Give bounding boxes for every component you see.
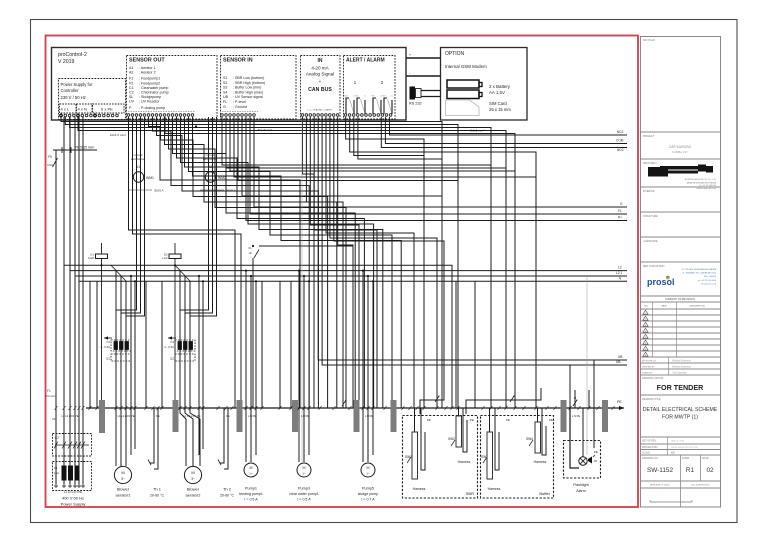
svg-text:: Buffer High (max): : Buffer High (max) bbox=[233, 90, 263, 94]
pump motor Pump5 bbox=[361, 463, 375, 477]
IN terminals bbox=[301, 114, 304, 117]
analog in wire 1 bbox=[303, 117, 315, 408]
svg-text:I Md Suardika: I Md Suardika bbox=[672, 372, 687, 375]
flashlight feed L bbox=[569, 365, 571, 408]
bundle count marks bbox=[342, 400, 346, 406]
svg-text:K2: K2 bbox=[55, 436, 59, 440]
svg-text:Harness: Harness bbox=[413, 487, 426, 491]
svg-text:DETAIL ELECTRICAL SCHEME: DETAIL ELECTRICAL SCHEME bbox=[643, 407, 718, 413]
bus tap connectors bbox=[111, 265, 116, 270]
svg-text:1: 1 bbox=[645, 313, 646, 315]
SIM card outline bbox=[446, 100, 480, 116]
junction dots bbox=[195, 125, 197, 127]
svg-text:5x4 mm²: 5x4 mm² bbox=[45, 394, 56, 398]
svg-text:5x1.5 mm²: 5x1.5 mm² bbox=[258, 128, 272, 132]
svg-text:: Aerator 1: : Aerator 1 bbox=[139, 66, 156, 70]
svg-text:+: + bbox=[409, 53, 411, 57]
analog in wire 4 bbox=[314, 117, 377, 408]
drawing status FOR TENDER bbox=[641, 394, 721, 396]
svg-text:M: M bbox=[367, 466, 370, 470]
wire L feed a bbox=[61, 117, 442, 408]
analog in wire 8 bbox=[338, 117, 353, 408]
svg-text:SIM Card: SIM Card bbox=[489, 101, 507, 106]
svg-text:: SBR Low (bottom): : SBR Low (bottom) bbox=[233, 76, 264, 80]
svg-text:WM2: WM2 bbox=[218, 176, 226, 180]
bus line N bbox=[79, 280, 627, 282]
svg-text:S2: S2 bbox=[223, 81, 227, 85]
svg-text:proControl-2: proControl-2 bbox=[58, 52, 87, 58]
motor breaker F4 Q2 bbox=[175, 340, 195, 351]
svg-text:4 x L: 4 x L bbox=[61, 107, 70, 112]
sensor in wire 6 bbox=[242, 117, 442, 196]
disconnect F9 bbox=[53, 158, 58, 167]
sensor out wire 9 bbox=[181, 117, 374, 408]
flashlight alarm enclosure bbox=[564, 441, 601, 479]
breaker feed risers bbox=[115, 270, 117, 311]
svg-text:FOR TENDER: FOR TENDER bbox=[657, 383, 705, 392]
alarm lamp bbox=[570, 408, 579, 468]
svg-text:R1: R1 bbox=[686, 467, 695, 474]
contactor K2 box bbox=[53, 434, 92, 457]
analog in wire 5 bbox=[326, 117, 414, 408]
PE riser bbox=[55, 150, 57, 484]
svg-text:Internal GSM Modem: Internal GSM Modem bbox=[445, 64, 487, 69]
bus line L2 bbox=[70, 270, 627, 272]
svg-text:L N PE: L N PE bbox=[248, 414, 256, 418]
svg-text:Power Supply for: Power Supply for bbox=[61, 82, 93, 87]
svg-text:aerator2: aerator2 bbox=[186, 493, 202, 498]
svg-text:A2: A2 bbox=[129, 71, 133, 75]
svg-text:: SBR High (bottom): : SBR High (bottom) bbox=[233, 81, 265, 85]
svg-text:DRAWING TITLE: DRAWING TITLE bbox=[642, 398, 661, 401]
svg-text:2 x Battery: 2 x Battery bbox=[489, 84, 511, 89]
svg-text:Analog Signal: Analog Signal bbox=[306, 72, 334, 77]
svg-text:: Sludgepump: : Sludgepump bbox=[139, 95, 161, 99]
svg-text:PROJECTION: PROJECTION bbox=[642, 446, 658, 449]
wire P+ bbox=[246, 117, 627, 221]
sensor out wire 12 bbox=[193, 117, 402, 408]
svg-text:NO: NO bbox=[383, 96, 386, 98]
sensor in wire 5 bbox=[238, 117, 458, 181]
title block frame bbox=[641, 37, 721, 508]
analog in wire 3 bbox=[310, 117, 359, 408]
pump3 feed bbox=[298, 271, 300, 462]
measurement line 1 bbox=[301, 119, 303, 462]
SENSOR OUT terminals bbox=[127, 114, 130, 117]
svg-text:L N PE: L N PE bbox=[572, 414, 580, 418]
rail terminal ticks bbox=[55, 406, 58, 410]
svg-text:WM1: WM1 bbox=[146, 176, 154, 180]
sensor out wire 2 bbox=[153, 117, 310, 408]
svg-text:: Feedpump1: : Feedpump1 bbox=[139, 77, 160, 81]
svg-text:STRUCTURE: STRUCTURE bbox=[643, 215, 658, 218]
thermal switch Th 2 bbox=[220, 408, 224, 463]
svg-text:V 2019: V 2019 bbox=[58, 59, 75, 65]
svg-text:PE: PE bbox=[594, 450, 598, 454]
svg-text:1~: 1~ bbox=[366, 472, 370, 476]
flashlight feed N bbox=[574, 390, 576, 408]
wire UB- bbox=[322, 117, 627, 365]
svg-text:Controller: Controller bbox=[61, 88, 80, 93]
svg-text:5: 5 bbox=[645, 337, 646, 339]
svg-text:SW-1152: SW-1152 bbox=[647, 467, 673, 474]
svg-text:SET-UP REV.: SET-UP REV. bbox=[642, 440, 657, 443]
svg-text:RS 232: RS 232 bbox=[409, 102, 422, 106]
approval rows bbox=[668, 357, 670, 375]
relay D1 LGM bbox=[96, 254, 108, 259]
svg-text:LGM: LGM bbox=[88, 256, 95, 260]
svg-text:: UV Reactor: : UV Reactor bbox=[139, 100, 160, 104]
svg-text:: UV Sensor signal: : UV Sensor signal bbox=[233, 95, 263, 99]
svg-text:L2: L2 bbox=[618, 266, 622, 270]
wire NO2 bbox=[381, 117, 627, 148]
alarm wire 2 bbox=[350, 117, 536, 408]
analog in wire 6 bbox=[330, 117, 437, 408]
svg-text:DESCRIPTION: DESCRIPTION bbox=[690, 306, 705, 308]
buffer aux feed bbox=[588, 390, 590, 408]
svg-text:IN: IN bbox=[318, 58, 323, 64]
svg-text:Widhian Bramanti: Widhian Bramanti bbox=[672, 360, 691, 363]
main fuse box F1 bbox=[53, 462, 92, 491]
svg-text:M: M bbox=[121, 470, 124, 475]
svg-text:INTERIOR: INTERIOR bbox=[643, 190, 655, 193]
svg-text:: Clearwater pump: : Clearwater pump bbox=[139, 86, 168, 90]
alarm wire 4 bbox=[358, 117, 442, 159]
key plan section bbox=[641, 131, 721, 133]
svg-text:300/5 A: 300/5 A bbox=[154, 189, 164, 193]
sensor out wire 1 bbox=[149, 117, 301, 408]
sensor in wire 4 bbox=[234, 117, 536, 177]
PE feed wire bbox=[53, 149, 97, 151]
svg-text:JL. RAYA ABC NO.1 JAKARTA 1234: JL. RAYA ABC NO.1 JAKARTA 12345 bbox=[683, 272, 717, 275]
svg-text:info@united-arch.com: info@united-arch.com bbox=[696, 187, 716, 190]
svg-text:PT. PROSOL REKAYASA INDONESIA: PT. PROSOL REKAYASA INDONESIA bbox=[682, 268, 717, 271]
motor2 PE bbox=[202, 281, 204, 449]
svg-text:6 x PE: 6 x PE bbox=[101, 107, 113, 112]
svg-text:: Chlorinator pump: : Chlorinator pump bbox=[139, 91, 169, 95]
svg-text:: Ground: : Ground bbox=[233, 105, 247, 109]
pump motor Pump3 bbox=[297, 463, 311, 477]
svg-text:L N PE: L N PE bbox=[365, 414, 373, 418]
svg-text:PAGE: PAGE bbox=[702, 457, 709, 460]
svg-text:4 - 6.3A: 4 - 6.3A bbox=[100, 345, 110, 349]
svg-text:SW1: SW1 bbox=[405, 455, 412, 459]
svg-text:JAN 05, 2023: JAN 05, 2023 bbox=[671, 440, 685, 443]
svg-text:AFFILIATE OF LINKS: AFFILIATE OF LINKS bbox=[650, 484, 670, 487]
svg-text:DATE: DATE bbox=[661, 305, 667, 308]
flashlight feed PE bbox=[593, 360, 595, 408]
affiliate row bbox=[641, 487, 721, 489]
svg-text:Blower: Blower bbox=[187, 487, 200, 492]
projection row bbox=[641, 449, 721, 451]
terminal group 4xL bbox=[60, 104, 77, 113]
svg-text:F1: F1 bbox=[47, 389, 51, 393]
svg-text:M: M bbox=[250, 466, 253, 470]
svg-text:ph +62 21 000 0000: ph +62 21 000 0000 bbox=[698, 280, 717, 282]
alarm wire 3 bbox=[354, 117, 424, 156]
svg-text:7: 7 bbox=[645, 349, 646, 351]
svg-text:NO: NO bbox=[356, 96, 359, 98]
sensor out wire 10 bbox=[185, 117, 383, 408]
svg-text:20-60 °C: 20-60 °C bbox=[150, 494, 165, 498]
svg-text:SENSOR OUT: SENSOR OUT bbox=[129, 58, 165, 64]
svg-text:02: 02 bbox=[706, 467, 714, 474]
bus line L1 bbox=[64, 265, 452, 408]
svg-text:3: 3 bbox=[645, 325, 646, 327]
svg-text:4: 4 bbox=[645, 331, 646, 333]
svg-text:PE: PE bbox=[506, 418, 510, 422]
svg-text:FL: FL bbox=[223, 100, 227, 104]
svg-text:PE: PE bbox=[549, 418, 553, 422]
svg-text:+: + bbox=[319, 79, 322, 84]
svg-text:Q2: Q2 bbox=[170, 357, 174, 361]
sensor out wire 8 bbox=[177, 117, 365, 408]
analog in wire 2 bbox=[306, 117, 343, 408]
main power feed bundle bbox=[63, 117, 65, 484]
SENSOR IN terminals bbox=[221, 114, 224, 117]
ALERT ALARM module bbox=[344, 56, 396, 120]
alarm horn bbox=[588, 457, 592, 464]
SBR tank enclosure bbox=[403, 416, 478, 499]
svg-text:LG2: LG2 bbox=[162, 256, 168, 260]
controller enclosure proControl-2 bbox=[52, 48, 407, 121]
wire COM bbox=[385, 117, 627, 144]
svg-text:DRAWN BY: DRAWN BY bbox=[642, 372, 653, 375]
PE rail bbox=[86, 407, 624, 409]
measurement line 2 bbox=[586, 277, 588, 455]
svg-text:10x1.5 mm²: 10x1.5 mm² bbox=[110, 133, 126, 137]
motor1 PE bbox=[134, 281, 136, 449]
svg-text:Harness: Harness bbox=[488, 487, 501, 491]
power supply module bbox=[59, 79, 126, 120]
svg-text:: P-level: : P-level bbox=[233, 100, 246, 104]
svg-text:X1: X1 bbox=[52, 417, 56, 421]
motor M1 blower1 bbox=[114, 466, 131, 483]
relay D2 LG2 bbox=[169, 254, 181, 259]
svg-text:Buffer: Buffer bbox=[539, 491, 550, 496]
svg-text:: Feedpump2: : Feedpump2 bbox=[139, 81, 160, 85]
svg-text:NO2: NO2 bbox=[617, 148, 624, 152]
thermal switch Th 1 bbox=[150, 408, 154, 463]
svg-text:400 V 50 Hz: 400 V 50 Hz bbox=[62, 496, 84, 501]
alarm relay contacts bbox=[346, 98, 349, 114]
svg-text:SW4: SW4 bbox=[526, 437, 533, 441]
svg-text:L N PE: L N PE bbox=[301, 414, 309, 418]
svg-text:CAP KAROSO: CAP KAROSO bbox=[669, 145, 692, 149]
svg-text:I = 0.5 A: I = 0.5 A bbox=[297, 498, 311, 502]
cable ducts bbox=[99, 400, 105, 433]
architect section bbox=[641, 186, 721, 188]
svg-text:N: N bbox=[574, 396, 576, 400]
wire G bbox=[254, 117, 627, 207]
svg-text:L1 L2 L3 N PE: L1 L2 L3 N PE bbox=[118, 414, 135, 418]
alarm PE wire bbox=[593, 408, 595, 448]
svg-text:230 V / 50 Hz: 230 V / 50 Hz bbox=[61, 95, 86, 100]
MEP consultant section bbox=[641, 295, 721, 297]
svg-text:FL: FL bbox=[618, 209, 622, 213]
svg-text:AA 1.5V: AA 1.5V bbox=[489, 90, 505, 95]
svg-text:P+: P+ bbox=[618, 216, 622, 220]
svg-text:aerator1: aerator1 bbox=[116, 493, 132, 498]
svg-text:A1: A1 bbox=[129, 66, 133, 70]
svg-text:SUMMARY OF REVISIONS: SUMMARY OF REVISIONS bbox=[665, 298, 695, 301]
bus drops bbox=[89, 281, 91, 408]
svg-text:1~: 1~ bbox=[249, 472, 253, 476]
svg-text:ALERT / ALARM: ALERT / ALARM bbox=[346, 58, 385, 64]
pump motor Pump1 bbox=[244, 463, 258, 477]
svg-text:I = 0.7 A: I = 0.7 A bbox=[361, 498, 375, 502]
svg-text:Pump1: Pump1 bbox=[245, 487, 257, 491]
svg-text:1~: 1~ bbox=[302, 472, 306, 476]
svg-text:Th 2: Th 2 bbox=[223, 487, 232, 492]
section 4 bbox=[641, 211, 721, 213]
svg-text:PE: PE bbox=[427, 418, 431, 422]
drawing number cell bbox=[641, 480, 721, 482]
svg-text:VERIFIED BY: VERIFIED BY bbox=[642, 367, 655, 369]
sensor in wire 3 bbox=[230, 117, 515, 171]
svg-text:Pump5: Pump5 bbox=[362, 487, 374, 491]
svg-text:FORM: FORM bbox=[682, 457, 689, 460]
section 5 bbox=[641, 236, 721, 238]
sensor in wire 1 bbox=[222, 117, 491, 165]
contactor Q2 bbox=[175, 354, 195, 361]
revision table bbox=[641, 308, 721, 310]
sensor out deep wire 2 bbox=[133, 117, 242, 408]
setup rev row bbox=[641, 443, 721, 445]
svg-text:Th 1: Th 1 bbox=[153, 487, 162, 492]
svg-text:SCALE: SCALE bbox=[642, 452, 650, 455]
terminal group 4xN bbox=[77, 104, 93, 113]
sensor out deep wire 1 bbox=[129, 117, 236, 408]
sensor out wire 11 bbox=[189, 117, 393, 408]
svg-text:: Aerator 2: : Aerator 2 bbox=[139, 71, 156, 75]
sensor out wire 5 bbox=[165, 117, 337, 408]
svg-text:Flashlight: Flashlight bbox=[573, 483, 588, 487]
svg-text:ph +62 21 000 000: ph +62 21 000 000 bbox=[699, 185, 717, 187]
supply terminals bbox=[55, 485, 57, 487]
svg-text:4-20 mA: 4-20 mA bbox=[311, 66, 329, 71]
tank feed collector 2 bbox=[466, 388, 541, 414]
svg-text:F9: F9 bbox=[48, 155, 52, 159]
svg-text:F1: F1 bbox=[129, 77, 133, 81]
svg-text:sludge pump: sludge pump bbox=[358, 492, 379, 496]
svg-text:MEP CONSULTANT: MEP CONSULTANT bbox=[643, 265, 665, 268]
wire battery plus bbox=[406, 57, 440, 59]
wire battery minus bbox=[406, 75, 440, 77]
motor M2 blower2 bbox=[184, 466, 201, 483]
svg-text:S3: S3 bbox=[223, 86, 227, 90]
wire UB bbox=[318, 117, 627, 360]
svg-text:F2: F2 bbox=[129, 81, 133, 85]
svg-text:I = 0.5 A: I = 0.5 A bbox=[244, 498, 258, 502]
bus line L2.1 bbox=[75, 275, 627, 277]
svg-text:Alarm: Alarm bbox=[576, 489, 585, 493]
svg-text:L1 L2 L3 N PE: L1 L2 L3 N PE bbox=[184, 414, 201, 418]
svg-text:www.prosol.co.id: www.prosol.co.id bbox=[701, 283, 716, 285]
svg-text:SENSOR IN: SENSOR IN bbox=[223, 58, 253, 64]
project section bbox=[641, 158, 721, 160]
svg-text:Harness: Harness bbox=[534, 460, 547, 464]
svg-text:PE: PE bbox=[470, 418, 474, 422]
svg-text:CAN BUS: CAN BUS bbox=[308, 87, 332, 93]
svg-text:UB: UB bbox=[223, 95, 229, 99]
analog IN module bbox=[301, 56, 341, 120]
RS232 connector bbox=[410, 87, 415, 99]
svg-text:L1 L2 L3 N PE: L1 L2 L3 N PE bbox=[64, 490, 82, 494]
svg-text:20-60 °C: 20-60 °C bbox=[220, 494, 235, 498]
svg-text:THIRD ANGLE PROJECTION: THIRD ANGLE PROJECTION bbox=[671, 446, 698, 449]
svg-text:Power Supply: Power Supply bbox=[61, 502, 86, 507]
svg-text:PROJECT: PROJECT bbox=[643, 135, 655, 138]
svg-text:S4: S4 bbox=[223, 90, 227, 94]
svg-text:COM: COM bbox=[616, 139, 624, 143]
svg-text:PE 5x25 mm²: PE 5x25 mm² bbox=[75, 146, 94, 150]
svg-text:4 x N: 4 x N bbox=[78, 107, 87, 112]
svg-text:IND - 000000: IND - 000000 bbox=[704, 276, 717, 278]
svg-text:L2.1: L2.1 bbox=[616, 271, 622, 275]
svg-text:FL: FL bbox=[248, 246, 252, 250]
svg-text:16A: 16A bbox=[54, 471, 59, 475]
svg-text:uF: uF bbox=[249, 251, 253, 255]
sensor out wire 4 bbox=[161, 117, 328, 408]
svg-text:C2: C2 bbox=[129, 91, 134, 95]
SENSOR OUT module bbox=[127, 56, 218, 120]
svg-text:NO: NO bbox=[345, 96, 348, 98]
alarm lamp top feed bbox=[582, 408, 584, 457]
wire L feed b bbox=[65, 117, 458, 408]
drawing title bbox=[641, 436, 721, 438]
svg-text:LANDSCAPE: LANDSCAPE bbox=[643, 240, 658, 243]
svg-text:Blower: Blower bbox=[117, 487, 130, 492]
svg-text:8x1.5 mm²: 8x1.5 mm² bbox=[470, 129, 484, 133]
wire L feed c bbox=[70, 117, 491, 408]
svg-text:SUMBA 1ST: SUMBA 1ST bbox=[672, 150, 688, 154]
svg-text:A3: A3 bbox=[671, 451, 675, 455]
svg-text:CN2: CN2 bbox=[47, 163, 53, 167]
svg-text:6: 6 bbox=[645, 343, 646, 345]
svg-text:: Buffer Low (min): : Buffer Low (min) bbox=[233, 86, 261, 90]
power supply terminals bbox=[60, 114, 63, 117]
sensor out wire 6 bbox=[169, 117, 347, 408]
scale row bbox=[641, 454, 721, 456]
svg-text:8: 8 bbox=[645, 355, 646, 357]
svg-text:APPROVED BY: APPROVED BY bbox=[642, 360, 657, 363]
battery cells 2x AA bbox=[447, 80, 479, 88]
svg-text:clear water pump1: clear water pump1 bbox=[289, 492, 319, 496]
svg-text:4 - 6.3A: 4 - 6.3A bbox=[164, 345, 174, 349]
svg-text:L+ L- IN AGND L CANH L: L+ L- IN AGND L CANH L bbox=[307, 109, 333, 112]
section 6 bbox=[641, 261, 721, 263]
svg-text:Pump3: Pump3 bbox=[298, 487, 310, 491]
alarm wire 1 bbox=[346, 117, 424, 408]
svg-text:SBR: SBR bbox=[466, 491, 474, 496]
svg-text:25 x 15 mm: 25 x 15 mm bbox=[489, 107, 511, 112]
svg-text:F4: F4 bbox=[170, 340, 174, 344]
K2 contact ticks bbox=[54, 442, 58, 449]
motor1 N bbox=[130, 276, 132, 455]
svg-text:NO: NO bbox=[644, 306, 648, 308]
svg-text:F1: F1 bbox=[54, 466, 58, 470]
svg-text:Widhian Bramanti: Widhian Bramanti bbox=[672, 366, 691, 369]
svg-text:SL: SL bbox=[129, 95, 133, 99]
svg-text:UV: UV bbox=[129, 100, 135, 104]
signature cell bbox=[650, 501, 692, 503]
svg-text:G: G bbox=[223, 105, 226, 109]
wire N feed bbox=[78, 117, 506, 408]
wire PE feed long bbox=[165, 117, 515, 408]
svg-text:OPTION: OPTION bbox=[445, 51, 465, 57]
svg-text:2: 2 bbox=[645, 319, 646, 321]
